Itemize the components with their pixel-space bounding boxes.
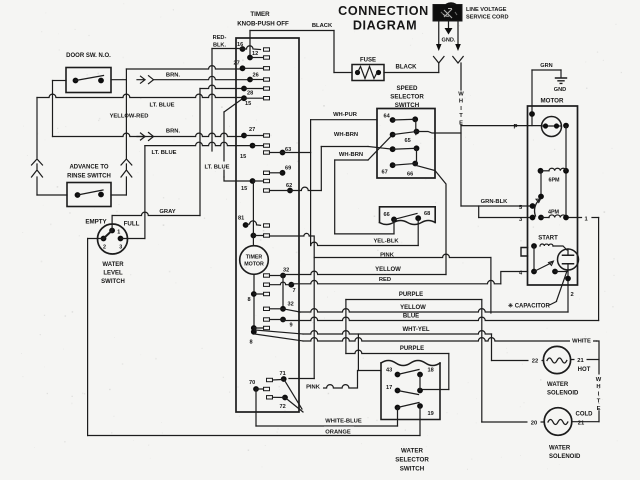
label 22	[529, 356, 542, 364]
switch 66-68 box	[380, 207, 436, 223]
wire PINK	[270, 233, 311, 236]
wire 66 to WH-BRN lower riser	[393, 219, 395, 234]
svg-text:LINE VOLTAGE: LINE VOLTAGE	[466, 7, 507, 13]
svg-text:DOOR SW. N.O.: DOOR SW. N.O.	[66, 53, 111, 59]
svg-text:12: 12	[252, 51, 258, 57]
motor start coil	[531, 243, 537, 249]
svg-text:FUSE: FUSE	[360, 58, 376, 64]
svg-text:EMPTY: EMPTY	[85, 219, 107, 226]
svg-text:P: P	[514, 125, 518, 131]
svg-text:15: 15	[245, 101, 251, 107]
wire motor 1 to blue	[566, 217, 582, 219]
svg-text:2: 2	[571, 292, 574, 298]
connector BRN upper	[137, 76, 154, 84]
svg-text:MOTOR: MOTOR	[541, 98, 564, 105]
svg-text:W: W	[458, 92, 464, 98]
svg-text:YELLOW: YELLOW	[400, 305, 426, 311]
capacitor terminal 2	[565, 276, 571, 282]
svg-text:WH-BRN: WH-BRN	[339, 152, 363, 158]
water selector switch box	[381, 361, 440, 366]
svg-text:LEVEL: LEVEL	[103, 271, 123, 277]
svg-text:GND: GND	[554, 87, 566, 93]
wire PURPLE lower to selector 18	[346, 350, 449, 353]
wire cold 21	[572, 421, 599, 423]
svg-text:YEL-BLK: YEL-BLK	[373, 239, 399, 245]
svg-text:FULL: FULL	[124, 221, 140, 228]
connector chevrons right riser	[121, 159, 132, 177]
svg-text:21: 21	[577, 358, 584, 364]
svg-text:7: 7	[293, 288, 296, 294]
svg-text:8: 8	[249, 340, 252, 346]
svg-text:BRN.: BRN.	[166, 73, 181, 79]
wire purple riser	[345, 300, 347, 354]
connector chevrons left riser	[32, 159, 43, 177]
svg-text:2: 2	[103, 245, 106, 251]
connector BRN lower	[137, 133, 154, 141]
wire white branch to motor 3	[478, 206, 480, 218]
wire motor P feed	[461, 125, 541, 127]
svg-text:WHITE: WHITE	[572, 339, 591, 345]
wire 62 to WH-BRN riser	[290, 187, 321, 190]
timer box outline	[236, 38, 299, 412]
svg-text:START: START	[538, 236, 558, 242]
svg-text:WHITE-BLUE: WHITE-BLUE	[325, 419, 362, 425]
wire BLUE to motor 1	[283, 317, 599, 320]
svg-text:27: 27	[249, 127, 255, 133]
svg-text:WATER: WATER	[401, 448, 423, 455]
speed selector switch S3	[377, 109, 435, 179]
timer contact 0 feed pink	[251, 233, 257, 239]
svg-text:SOLENOID: SOLENOID	[549, 454, 581, 460]
motor main winding circle	[529, 111, 535, 117]
svg-text:WH-BRN: WH-BRN	[334, 132, 358, 138]
svg-text:WATER: WATER	[547, 382, 569, 388]
wire PURPLE to cold solenoid	[346, 299, 482, 301]
svg-text:81: 81	[238, 216, 244, 222]
svg-text:15: 15	[241, 186, 247, 192]
svg-text:WATER: WATER	[549, 446, 571, 452]
svg-text:SERVICE CORD: SERVICE CORD	[466, 15, 508, 21]
svg-text:LT. BLUE: LT. BLUE	[151, 150, 176, 156]
label 20	[528, 418, 541, 426]
svg-text:RINSE SWITCH: RINSE SWITCH	[67, 174, 111, 180]
motor start switch blade	[533, 246, 535, 272]
svg-text:HOT: HOT	[578, 367, 591, 373]
svg-text:PURPLE: PURPLE	[399, 292, 423, 298]
svg-text:68: 68	[424, 211, 430, 217]
timer central spine	[252, 181, 254, 246]
wire rinse switch legs	[37, 194, 67, 196]
svg-text:69: 69	[285, 166, 291, 172]
service cord pin left	[438, 21, 440, 44]
svg-text:DIAGRAM: DIAGRAM	[353, 19, 417, 33]
wire 8 diagonal to wht-yel	[255, 330, 304, 334]
capacitor C1 circle	[558, 249, 579, 270]
wire motor internal right riser	[565, 126, 567, 218]
svg-text:66: 66	[407, 172, 413, 178]
svg-text:66: 66	[384, 212, 390, 218]
service cord ground pin arrow	[448, 21, 450, 28]
svg-text:22: 22	[532, 359, 538, 365]
svg-text:15: 15	[240, 154, 246, 160]
svg-text:SELECTOR: SELECTOR	[390, 94, 424, 101]
wire ORANGE	[88, 435, 420, 437]
svg-text:RED-: RED-	[213, 35, 227, 41]
svg-text:3: 3	[119, 245, 122, 251]
svg-text:19: 19	[428, 411, 434, 417]
svg-text:LT. BLUE: LT. BLUE	[149, 103, 174, 109]
hot water solenoid L1	[543, 346, 570, 373]
svg-text:9: 9	[290, 323, 293, 329]
svg-text:6PM: 6PM	[548, 178, 560, 184]
cold water solenoid L2	[544, 408, 572, 436]
label 21 hot	[575, 355, 587, 363]
timer motor M2	[240, 246, 269, 275]
wire WH-BRN lower	[334, 160, 336, 234]
svg-text:32: 32	[288, 302, 294, 308]
svg-text:8: 8	[248, 297, 251, 303]
wire YELLOW to speed selector 66	[283, 271, 446, 274]
service cord pin right	[457, 21, 459, 44]
wire BRN chevron to timer 26	[154, 76, 250, 79]
motor box outline	[528, 106, 578, 285]
wire water level 2 to orange run	[88, 238, 104, 240]
svg-text:28: 28	[247, 91, 253, 97]
wire rinse plug riser left	[37, 94, 244, 97]
svg-text:27: 27	[234, 61, 240, 67]
svg-text:COLD: COLD	[576, 412, 594, 418]
wire door switch right to junction	[111, 79, 126, 81]
wire WH-PUR riser from 63	[283, 152, 311, 154]
svg-text:WHT-YEL: WHT-YEL	[403, 327, 430, 333]
wire speed selector output to motor P	[417, 132, 462, 134]
wire YELLOW capacitor line	[283, 309, 300, 312]
advance to rinse switch S2	[67, 183, 111, 207]
label W-H-I-T-E vertical right	[595, 375, 603, 382]
svg-text:BLACK: BLACK	[312, 23, 333, 29]
water selector contacts	[395, 372, 401, 378]
svg-text:64: 64	[384, 114, 391, 120]
wire 8 diagonal to white	[255, 334, 304, 341]
wire LT. BLUE from water level 3	[144, 146, 146, 239]
speed selector contacts and blades	[390, 117, 396, 123]
motor centrifugal switch	[530, 203, 536, 209]
wire YEL-BLK	[311, 242, 419, 245]
svg-text:67: 67	[382, 170, 388, 176]
svg-text:YELLOW-RED: YELLOW-RED	[110, 114, 149, 120]
label LT. BLUE third	[202, 162, 232, 170]
svg-text:WH-PUR: WH-PUR	[333, 112, 358, 118]
svg-text:43: 43	[386, 368, 392, 374]
svg-text:BLUE: BLUE	[403, 314, 419, 320]
wire BRN lower from door-left	[53, 133, 245, 136]
svg-text:YELLOW: YELLOW	[375, 267, 401, 273]
svg-text:LT. BLUE: LT. BLUE	[204, 165, 229, 171]
wire BLACK fuse to plug	[384, 72, 439, 74]
svg-text:GRAY: GRAY	[159, 209, 175, 215]
receptacle connector right	[453, 57, 463, 64]
svg-text:T: T	[459, 113, 463, 119]
svg-text:BLK.: BLK.	[213, 43, 226, 49]
svg-text:WATER: WATER	[102, 262, 124, 268]
wire water level 3 leg	[121, 238, 145, 240]
svg-text:GRN-BLK: GRN-BLK	[481, 199, 509, 205]
svg-text:SELECTOR: SELECTOR	[395, 457, 429, 464]
door switch S1	[66, 68, 111, 93]
svg-text:PINK: PINK	[380, 253, 395, 259]
wire BLACK timer to fuse	[249, 31, 251, 58]
svg-text:ORANGE: ORANGE	[325, 430, 351, 436]
svg-text:26: 26	[253, 73, 259, 79]
receptacle connector left	[434, 57, 445, 64]
wire door switch left leg	[53, 80, 67, 82]
wire LT. BLUE riser to timer 15	[223, 112, 225, 177]
svg-text:SOLENOID: SOLENOID	[547, 391, 579, 397]
wire WHT-YEL riser to water selector 43	[357, 334, 359, 371]
svg-text:72: 72	[280, 404, 286, 410]
svg-text:32: 32	[283, 268, 289, 274]
svg-text:SPEED: SPEED	[397, 85, 419, 92]
wire GRN-BLK to motor 5	[461, 205, 533, 207]
svg-text:✳ CAPACITOR: ✳ CAPACITOR	[508, 303, 550, 310]
wire PINK lower 70-71-72	[289, 378, 314, 380]
svg-text:71: 71	[280, 371, 286, 377]
svg-text:17: 17	[386, 385, 392, 391]
wire GRAY	[112, 212, 200, 215]
wire cold 20	[482, 421, 544, 423]
svg-text:SWITCH: SWITCH	[400, 466, 425, 473]
svg-text:KNOB-PUSH OFF: KNOB-PUSH OFF	[237, 21, 289, 28]
plug / line voltage service cord icon	[433, 5, 462, 22]
motor winding drop	[540, 171, 542, 197]
label 21 cold	[575, 418, 587, 426]
label WHITE horizontal	[570, 336, 593, 343]
wire speed selector 66 output	[415, 165, 446, 274]
svg-text:TIMER: TIMER	[250, 11, 270, 18]
svg-text:GRN: GRN	[540, 63, 552, 69]
water level switch PS1	[98, 224, 128, 254]
wire GRN	[531, 70, 533, 126]
wire WHITE-BLUE	[255, 389, 257, 426]
capacitor pointer	[557, 271, 568, 301]
svg-text:PURPLE: PURPLE	[400, 346, 424, 352]
wire WHITE neutral riser	[460, 63, 462, 90]
svg-text:20: 20	[531, 421, 537, 427]
label WHITE-BLUE	[322, 416, 365, 423]
wire 68 to YEL-BLK	[417, 218, 419, 245]
label PINK lower	[303, 382, 323, 389]
fuse F1	[352, 65, 384, 81]
svg-text:GND.: GND.	[442, 38, 456, 44]
svg-text:18: 18	[428, 368, 434, 374]
motor run winding 6PM	[538, 168, 544, 174]
svg-text:BLACK: BLACK	[396, 65, 418, 71]
wire water level 1 to gray	[111, 216, 113, 231]
wire WHITE to solenoid returns	[303, 338, 597, 341]
svg-text:H: H	[459, 99, 463, 105]
svg-text:PINK: PINK	[306, 385, 321, 391]
svg-text:SWITCH: SWITCH	[101, 279, 125, 285]
label ORANGE	[324, 427, 354, 434]
svg-text:TIMER: TIMER	[246, 255, 263, 261]
svg-text:BRN.: BRN.	[166, 129, 181, 135]
svg-text:1: 1	[117, 230, 120, 236]
svg-text:ADVANCE TO: ADVANCE TO	[69, 165, 108, 171]
wire WH-BRN upper	[321, 146, 368, 148]
ground symbol	[556, 78, 567, 83]
motor terminal block notch	[521, 248, 528, 257]
wire WHT-YEL to hot solenoid 22	[303, 331, 492, 334]
svg-text:E: E	[597, 406, 601, 412]
wire BRN upper branch to timer 27	[125, 69, 127, 80]
svg-text:RED: RED	[379, 277, 391, 283]
svg-text:MOTOR: MOTOR	[244, 262, 264, 268]
wire hot 21	[571, 359, 599, 361]
svg-text:65: 65	[405, 138, 411, 144]
svg-text:70: 70	[249, 380, 255, 386]
wire RED to motor 4	[291, 280, 501, 283]
